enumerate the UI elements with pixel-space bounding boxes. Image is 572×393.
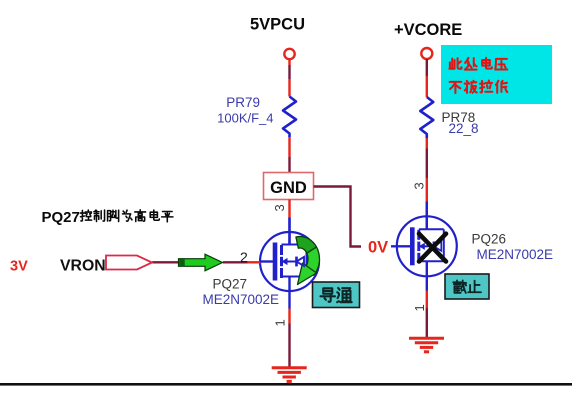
svg-text:1: 1 — [273, 319, 288, 326]
svg-text:100K/F_4: 100K/F_4 — [217, 111, 273, 126]
svg-text:ME2N7002E: ME2N7002E — [477, 247, 554, 262]
svg-text:22_8: 22_8 — [449, 121, 479, 136]
svg-text:3V: 3V — [10, 259, 28, 275]
svg-text:2: 2 — [240, 249, 248, 265]
svg-text:PR79: PR79 — [226, 95, 260, 110]
svg-text:+VCORE: +VCORE — [394, 21, 462, 39]
svg-text:5VPCU: 5VPCU — [250, 16, 305, 34]
svg-text:GND: GND — [270, 179, 307, 197]
svg-text:ME2N7002E: ME2N7002E — [203, 292, 280, 307]
svg-text:VRON: VRON — [60, 258, 106, 275]
svg-text:1: 1 — [412, 304, 427, 311]
svg-text:3: 3 — [272, 204, 287, 211]
svg-text:PQ26: PQ26 — [472, 232, 507, 247]
svg-text:PQ27: PQ27 — [42, 209, 80, 226]
svg-text:3: 3 — [412, 182, 427, 189]
svg-text:PQ27: PQ27 — [213, 277, 248, 292]
svg-text:0V: 0V — [368, 239, 388, 257]
